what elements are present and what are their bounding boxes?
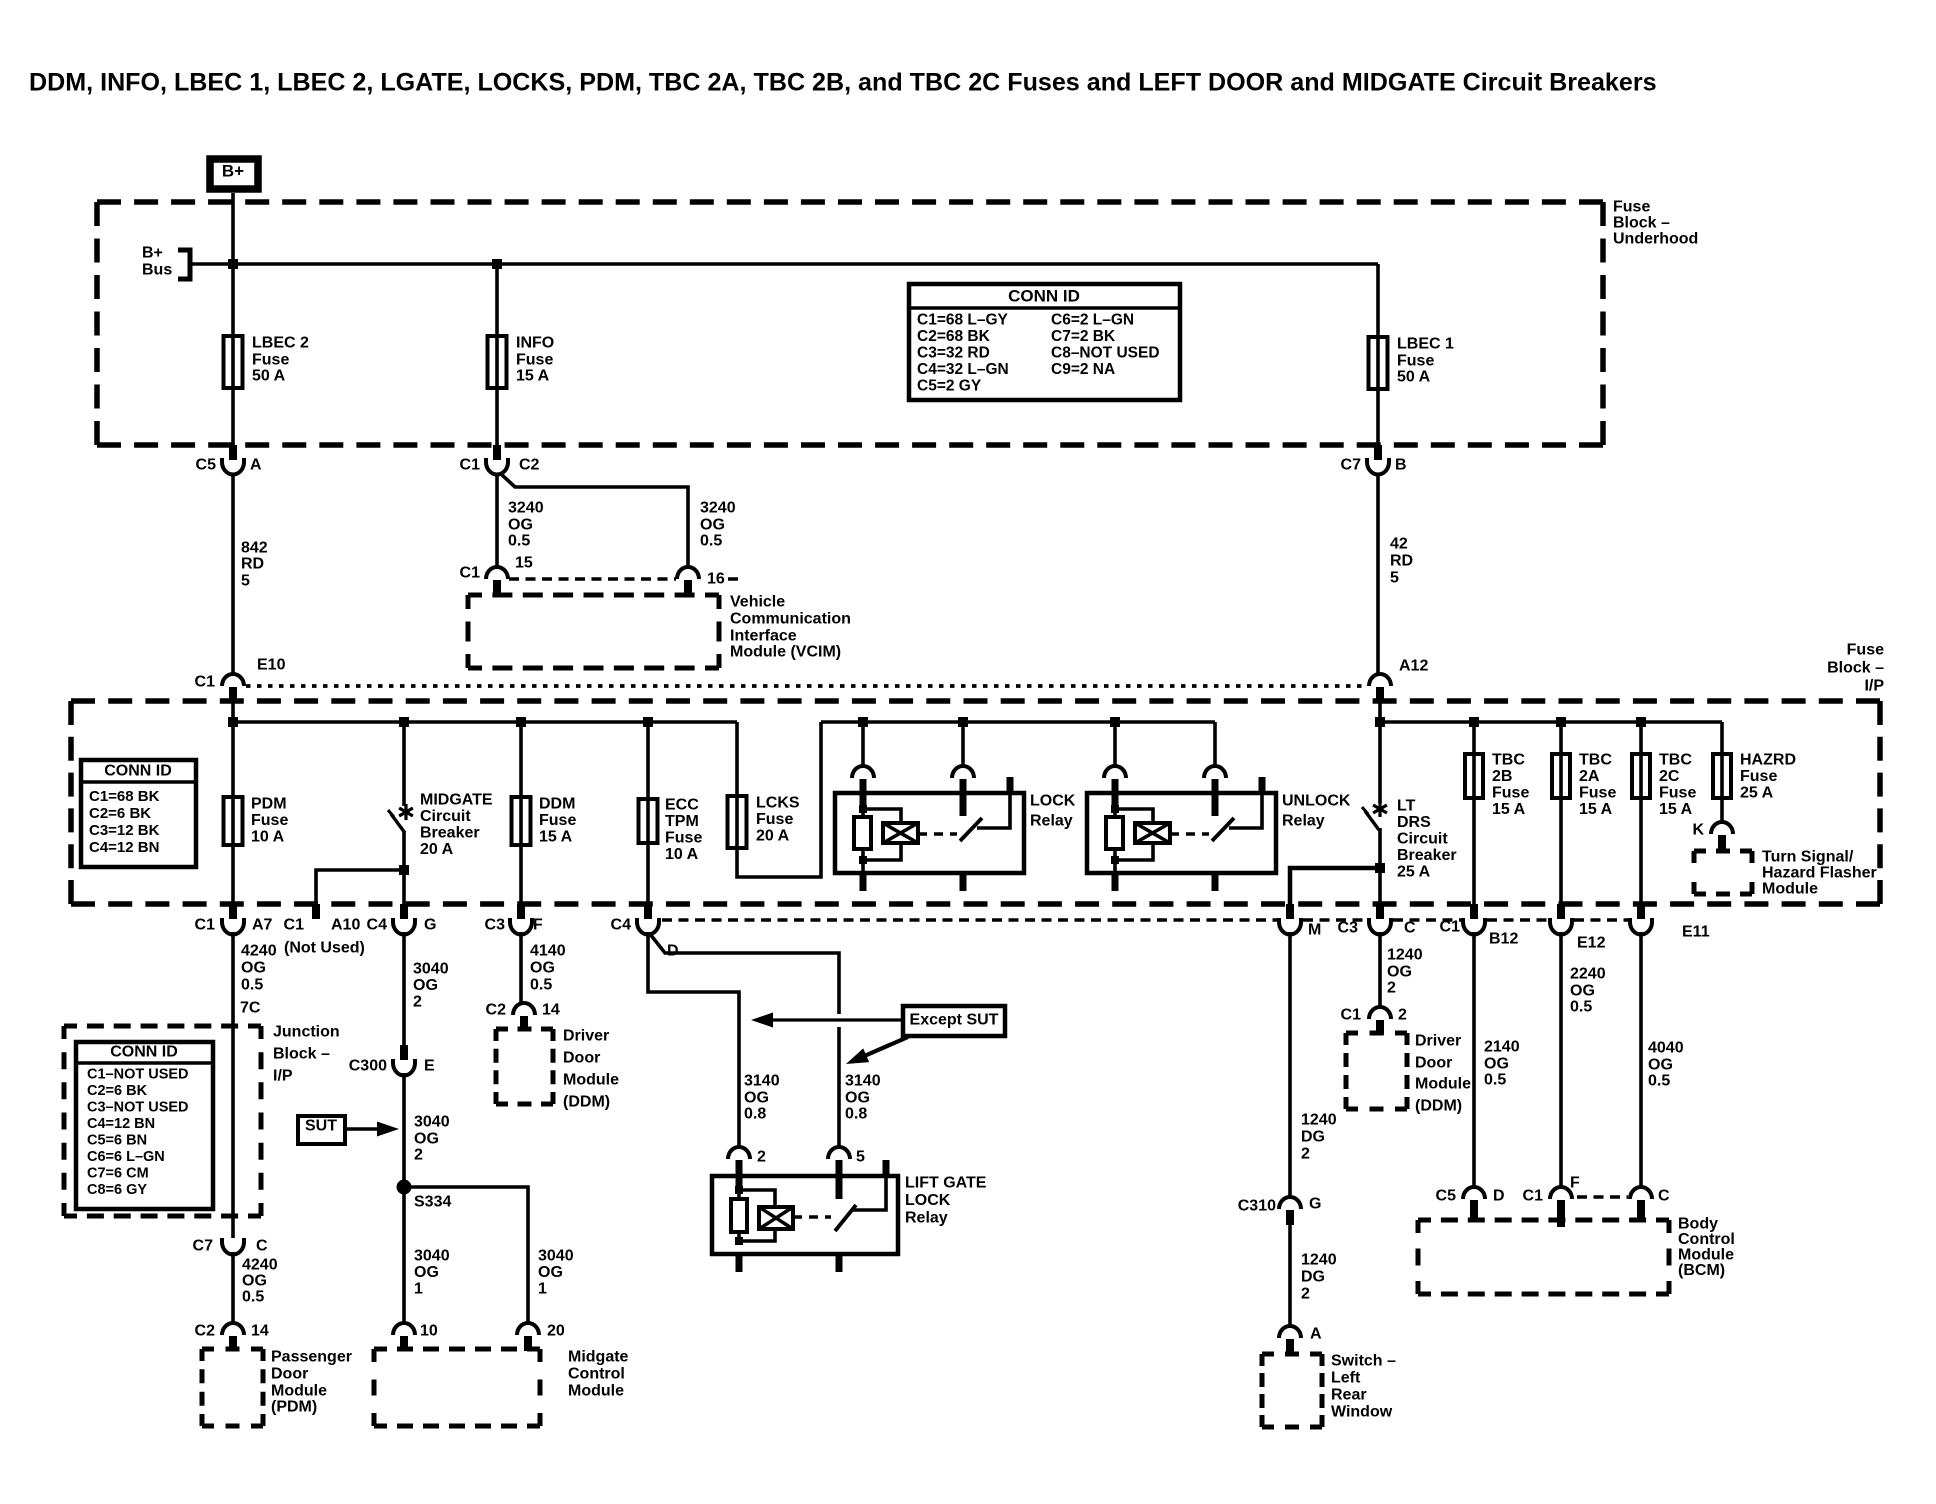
- connector C2 14 stub pdm: [229, 1336, 237, 1351]
- svg-text:G: G: [424, 917, 436, 934]
- fuse LCKS: [728, 796, 747, 848]
- LOCK relay coil winding: [883, 823, 918, 843]
- midgate breaker asterisk: [399, 804, 413, 820]
- svg-text:C2=6 BK: C2=6 BK: [89, 805, 151, 822]
- liftgate switch arm: [835, 1205, 856, 1231]
- svg-text:1: 1: [538, 1281, 547, 1298]
- svg-text:16: 16: [707, 571, 725, 588]
- svg-text:0.5: 0.5: [1570, 999, 1592, 1016]
- svg-text:842: 842: [241, 540, 268, 557]
- connector C dome: [1630, 1187, 1652, 1199]
- svg-text:Except SUT: Except SUT: [910, 1012, 999, 1029]
- UNLOCK coil output stub: [1112, 873, 1119, 891]
- svg-text:OG: OG: [530, 960, 555, 977]
- svg-text:Fuse: Fuse: [1579, 785, 1616, 802]
- pin 10 dome: [393, 1323, 415, 1335]
- svg-text:Fuse: Fuse: [1847, 642, 1884, 659]
- svg-text:2: 2: [1301, 1286, 1310, 1303]
- svg-text:OG: OG: [1484, 1056, 1509, 1073]
- wire C to C1: [1378, 932, 1382, 1007]
- UNLOCK coil terminal stub: [1112, 779, 1119, 810]
- wire E11 to C: [1639, 932, 1643, 1188]
- svg-text:Breaker: Breaker: [1397, 847, 1457, 864]
- connector C310 G stub: [1286, 1210, 1294, 1225]
- I/P bus wire left: [233, 720, 737, 724]
- junction dot ECC: [643, 717, 653, 727]
- connector C1 A7 stub: [229, 904, 237, 919]
- junction dot TBC2A: [1556, 717, 1566, 727]
- svg-text:(PDM): (PDM): [271, 1399, 317, 1416]
- junction dot MIDGATE: [399, 717, 409, 727]
- connector C300 E stub: [400, 1045, 408, 1060]
- pin 15 dome: [486, 567, 508, 579]
- svg-text:1: 1: [414, 1281, 423, 1298]
- connector C2 14 dome left: [513, 1003, 535, 1015]
- svg-text:C1: C1: [284, 917, 305, 934]
- svg-text:Communication: Communication: [730, 611, 851, 628]
- svg-text:OG: OG: [1387, 964, 1412, 981]
- UNLOCK coil top junction dot: [1111, 805, 1119, 813]
- wire bus to TBC2B fuse: [1472, 722, 1476, 904]
- I/P bus wire right: [1380, 720, 1722, 724]
- wire bus to UNLOCK switch: [1213, 722, 1217, 767]
- wire bus to TBC2C fuse: [1639, 722, 1643, 904]
- svg-text:4040: 4040: [1648, 1040, 1684, 1057]
- svg-text:Fuse: Fuse: [1492, 785, 1529, 802]
- liftgate coil output stub: [736, 1254, 743, 1272]
- svg-text:CONN ID: CONN ID: [110, 1044, 178, 1061]
- svg-text:C1: C1: [460, 457, 481, 474]
- svg-text:C4=12 BN: C4=12 BN: [89, 839, 159, 856]
- junction dot LOCK coil: [858, 717, 868, 727]
- CONN ID table underhood: [909, 284, 1180, 400]
- svg-text:C1: C1: [1440, 919, 1461, 936]
- svg-text:OG: OG: [413, 977, 438, 994]
- LOCK relay linkage dashes: [918, 832, 957, 836]
- svg-text:C4: C4: [367, 917, 388, 934]
- svg-text:C7=2 BK: C7=2 BK: [1051, 328, 1116, 345]
- svg-text:4240: 4240: [242, 1257, 278, 1274]
- svg-text:C2: C2: [195, 1323, 216, 1340]
- svg-text:Vehicle: Vehicle: [730, 594, 785, 611]
- svg-text:Circuit: Circuit: [420, 808, 471, 825]
- svg-text:4140: 4140: [530, 943, 566, 960]
- DDM module dashed box left: [496, 1029, 553, 1104]
- svg-text:(DDM): (DDM): [563, 1094, 610, 1111]
- LOCK coil bottom junction dot: [859, 856, 867, 864]
- wire bus corner to LBEC1 fuse: [1376, 264, 1380, 447]
- svg-text:PDM: PDM: [251, 796, 287, 813]
- svg-text:C8–NOT USED: C8–NOT USED: [1051, 344, 1160, 361]
- svg-text:0.8: 0.8: [744, 1106, 766, 1123]
- wire C7 to C2: [231, 1252, 235, 1323]
- LOCK coil output stub: [860, 873, 867, 891]
- svg-text:B+: B+: [142, 245, 163, 262]
- connector C7 B stub: [1374, 445, 1382, 460]
- svg-text:5: 5: [241, 573, 250, 590]
- svg-text:C1–NOT USED: C1–NOT USED: [87, 1067, 189, 1083]
- svg-text:E10: E10: [257, 657, 286, 674]
- pin 10 stub: [400, 1336, 408, 1351]
- junction dot bus/INFO: [492, 259, 502, 269]
- CONN ID table junction block: [76, 1042, 213, 1209]
- svg-text:OG: OG: [242, 1273, 267, 1290]
- wire bus to ECC fuse: [646, 722, 650, 904]
- svg-text:B: B: [1395, 457, 1407, 474]
- svg-text:C2=68 BK: C2=68 BK: [917, 328, 991, 345]
- svg-text:Door: Door: [1415, 1055, 1452, 1072]
- fuse TBC 2A: [1552, 754, 1570, 798]
- svg-text:Module: Module: [568, 1383, 624, 1400]
- svg-text:A: A: [250, 457, 262, 474]
- svg-text:SUT: SUT: [305, 1118, 337, 1135]
- fuse TBC 2C: [1632, 754, 1650, 798]
- UNLOCK switch terminal dome: [1204, 766, 1226, 778]
- svg-text:Control: Control: [1678, 1231, 1735, 1248]
- midgate breaker arm: [391, 814, 405, 833]
- SUT arrow: [345, 1127, 383, 1130]
- connector C stub: [1637, 1200, 1645, 1222]
- svg-text:Window: Window: [1331, 1404, 1393, 1421]
- svg-text:D: D: [1493, 1188, 1505, 1205]
- wire C1 to VCIM pin 15: [495, 474, 499, 566]
- svg-text:0.5: 0.5: [1484, 1072, 1506, 1089]
- svg-text:Junction: Junction: [273, 1024, 340, 1041]
- UNLOCK coil parallel wire: [1115, 809, 1153, 824]
- liftgate coil bottom junction dot: [735, 1237, 743, 1245]
- svg-text:Relay: Relay: [1282, 813, 1325, 830]
- svg-text:DG: DG: [1301, 1269, 1325, 1286]
- svg-text:Door: Door: [271, 1366, 308, 1383]
- svg-text:Block –: Block –: [273, 1046, 330, 1063]
- svg-text:OG: OG: [700, 517, 725, 534]
- connector M: [1279, 918, 1301, 935]
- connector A stub: [1286, 1339, 1294, 1354]
- svg-text:Fuse: Fuse: [665, 830, 702, 847]
- svg-text:2: 2: [414, 1147, 423, 1164]
- svg-text:C1: C1: [1523, 1188, 1544, 1205]
- UNLOCK coil bottom junction dot: [1111, 856, 1119, 864]
- svg-text:OG: OG: [1570, 983, 1595, 1000]
- fuse LBEC 1: [1369, 337, 1388, 389]
- svg-text:C3=12 BK: C3=12 BK: [89, 822, 160, 839]
- svg-text:C310: C310: [1238, 1198, 1276, 1215]
- svg-text:15: 15: [515, 555, 533, 572]
- svg-text:2140: 2140: [1484, 1039, 1520, 1056]
- wire B12 to C5: [1472, 932, 1476, 1188]
- svg-text:Breaker: Breaker: [420, 825, 480, 842]
- VCIM module dashed box: [468, 595, 719, 668]
- UNLOCK switch contact stub: [1212, 779, 1219, 816]
- connector A12 dome: [1369, 674, 1391, 686]
- liftgate switch common wire: [853, 1177, 886, 1210]
- connector C4 G: [393, 918, 415, 935]
- svg-text:CONN ID: CONN ID: [1008, 286, 1080, 305]
- svg-text:Fuse: Fuse: [251, 812, 288, 829]
- connector C5 A stub: [229, 445, 237, 460]
- svg-text:Relay: Relay: [1030, 813, 1073, 830]
- UNLOCK relay resistor: [1113, 806, 1117, 818]
- svg-text:C3=32 RD: C3=32 RD: [917, 344, 990, 361]
- LOCK coil output wire: [861, 860, 865, 873]
- svg-text:Circuit: Circuit: [1397, 831, 1448, 848]
- svg-text:C1: C1: [195, 917, 216, 934]
- pin 20 dome: [517, 1323, 539, 1335]
- svg-text:C300: C300: [349, 1058, 387, 1075]
- wire to liftgate pin5 lower: [837, 1027, 841, 1148]
- wire LT DRS breaker to C: [1378, 828, 1382, 904]
- svg-text:Turn Signal/: Turn Signal/: [1762, 849, 1854, 866]
- LOCK coil terminal stub: [860, 779, 867, 810]
- junction dot TBC2B: [1469, 717, 1479, 727]
- svg-text:C4=32 L–GN: C4=32 L–GN: [917, 361, 1009, 378]
- LIFT GATE LOCK relay box: [712, 1176, 898, 1254]
- junction dot DDM: [516, 717, 526, 727]
- svg-text:25 A: 25 A: [1740, 785, 1774, 802]
- svg-text:2: 2: [757, 1149, 766, 1166]
- svg-text:Fuse: Fuse: [1397, 353, 1434, 370]
- svg-text:OG: OG: [414, 1264, 439, 1281]
- wire bus to LT DRS breaker: [1378, 722, 1382, 803]
- svg-text:0.5: 0.5: [700, 533, 722, 550]
- svg-text:A: A: [1310, 1326, 1322, 1343]
- connector C5 A: [222, 458, 244, 475]
- svg-text:50 A: 50 A: [1397, 369, 1431, 386]
- svg-text:2: 2: [1398, 1007, 1407, 1024]
- connector C1 2 stub: [1376, 1020, 1384, 1035]
- LOCK switch output stub: [960, 873, 967, 891]
- svg-text:LT: LT: [1397, 798, 1416, 815]
- LT DRS breaker arm: [1365, 811, 1379, 830]
- wire bus to PDM fuse: [231, 722, 235, 904]
- svg-text:TBC: TBC: [1579, 752, 1612, 769]
- svg-text:5: 5: [856, 1149, 865, 1166]
- svg-text:C1=68 BK: C1=68 BK: [89, 788, 160, 805]
- connector A10 stub: [312, 904, 320, 919]
- svg-text:C2: C2: [519, 457, 540, 474]
- svg-text:14: 14: [251, 1323, 269, 1340]
- fuse INFO: [488, 336, 507, 388]
- svg-text:Module (VCIM): Module (VCIM): [730, 644, 841, 661]
- UNLOCK switch output stub: [1212, 873, 1219, 891]
- connector C1 B12 stub: [1470, 904, 1478, 919]
- wire branch to M: [1290, 868, 1380, 904]
- Except SUT arrow left: [766, 1018, 903, 1021]
- svg-text:DDM: DDM: [539, 796, 575, 813]
- wire E to S334: [402, 1073, 406, 1187]
- svg-text:(DDM): (DDM): [1415, 1098, 1462, 1115]
- svg-text:I/P: I/P: [273, 1068, 293, 1085]
- svg-text:Module: Module: [1415, 1076, 1471, 1093]
- wire midgate branch to A10: [316, 870, 404, 904]
- svg-text:15 A: 15 A: [539, 829, 573, 846]
- svg-text:LBEC 2: LBEC 2: [252, 335, 309, 352]
- svg-text:TBC: TBC: [1492, 752, 1525, 769]
- svg-text:3040: 3040: [414, 1248, 450, 1265]
- svg-text:14: 14: [542, 1002, 560, 1019]
- LOCK coil parallel wire: [863, 809, 901, 824]
- svg-text:20 A: 20 A: [420, 841, 454, 858]
- liftgate coil top junction dot: [735, 1186, 743, 1194]
- LOCK switch contact stub: [960, 779, 967, 816]
- connector K dome: [1711, 822, 1733, 834]
- junction dot PDM: [228, 717, 238, 727]
- svg-text:0.5: 0.5: [530, 977, 552, 994]
- pin 16 stub: [684, 580, 692, 596]
- fuse HAZRD: [1713, 754, 1731, 798]
- LOCK relay box: [835, 793, 1024, 873]
- junction dot midgate branch: [399, 865, 409, 875]
- svg-text:2B: 2B: [1492, 768, 1512, 785]
- connector C3 F: [510, 918, 532, 935]
- svg-text:OG: OG: [744, 1090, 769, 1107]
- LOCK switch terminal dome: [952, 766, 974, 778]
- svg-text:0.5: 0.5: [508, 533, 530, 550]
- connector C1 C2 stub: [493, 445, 501, 460]
- LOCK switch common wire: [977, 794, 1010, 828]
- svg-text:Fuse: Fuse: [539, 812, 576, 829]
- svg-text:TBC: TBC: [1659, 752, 1692, 769]
- connector E12: [1550, 918, 1572, 935]
- LOCK switch arm: [960, 818, 982, 841]
- svg-text:2: 2: [413, 994, 422, 1011]
- svg-text:C1: C1: [460, 565, 481, 582]
- LT DRS breaker asterisk: [1373, 801, 1387, 817]
- svg-text:E11: E11: [1682, 924, 1710, 941]
- connector A12 stub: [1376, 687, 1384, 702]
- svg-text:C: C: [1404, 920, 1416, 937]
- svg-text:1240: 1240: [1301, 1252, 1337, 1269]
- UNLOCK relay linkage dashes: [1170, 832, 1209, 836]
- DDM module dashed box right: [1346, 1033, 1407, 1109]
- wire bus to E10: [231, 702, 235, 722]
- svg-text:OG: OG: [1648, 1057, 1673, 1074]
- VCIM pin dotted line: [509, 577, 676, 581]
- svg-text:Relay: Relay: [905, 1210, 948, 1227]
- liftgate switch output stub: [836, 1254, 843, 1272]
- svg-text:Fuse: Fuse: [1613, 199, 1650, 216]
- Except SUT arrow diagonal: [862, 1037, 908, 1057]
- svg-text:15 A: 15 A: [1492, 801, 1526, 818]
- svg-text:2: 2: [1301, 1146, 1310, 1163]
- svg-text:C1: C1: [195, 674, 216, 691]
- svg-text:C8=6 GY: C8=6 GY: [87, 1182, 147, 1198]
- connector C3 F stub: [517, 904, 525, 919]
- wire B+ to bus: [231, 193, 235, 264]
- svg-text:Fuse: Fuse: [252, 352, 289, 369]
- svg-text:15 A: 15 A: [516, 368, 550, 385]
- svg-text:C1: C1: [1341, 1007, 1362, 1024]
- svg-text:C4: C4: [611, 917, 632, 934]
- svg-text:OG: OG: [414, 1131, 439, 1148]
- connector C2 14 stub left: [520, 1016, 528, 1031]
- wire A7 to C7: [231, 932, 235, 1238]
- svg-text:C5: C5: [1436, 1188, 1457, 1205]
- connector C4 D stub: [644, 904, 652, 919]
- svg-text:C2=6 BK: C2=6 BK: [87, 1083, 148, 1099]
- wire C310 to A: [1288, 1225, 1292, 1326]
- svg-text:LBEC 1: LBEC 1: [1397, 336, 1454, 353]
- connector E10 stub: [229, 687, 237, 702]
- svg-text:F: F: [1570, 1175, 1580, 1192]
- svg-text:0.5: 0.5: [242, 1289, 264, 1306]
- svg-text:Block –: Block –: [1827, 660, 1884, 677]
- wire bus to INFO fuse: [495, 264, 499, 447]
- connector C1 C2: [486, 458, 508, 475]
- UNLOCK coil output wire: [1113, 860, 1117, 873]
- wire E12 to C1F: [1559, 932, 1563, 1188]
- fuse TBC 2B: [1465, 754, 1483, 798]
- fuse ECC TPM: [639, 799, 658, 843]
- bottom dotted line: [662, 918, 1277, 922]
- LOCK relay top-right stub: [1007, 777, 1014, 794]
- svg-text:OG: OG: [538, 1264, 563, 1281]
- svg-text:3040: 3040: [538, 1248, 574, 1265]
- svg-text:C4=12 BN: C4=12 BN: [87, 1116, 155, 1132]
- connector C1 A7: [222, 918, 244, 935]
- svg-text:3240: 3240: [508, 500, 544, 517]
- wire S334 to pin10: [402, 1187, 406, 1324]
- wire C2 to VCIM pin 16: [501, 474, 688, 566]
- wire 42 RD: [1376, 474, 1380, 674]
- wire LCKS detour: [737, 722, 821, 877]
- svg-text:LCKS: LCKS: [756, 795, 800, 812]
- svg-text:B+: B+: [222, 161, 244, 180]
- junction dot TBC2C: [1636, 717, 1646, 727]
- svg-text:K: K: [1692, 822, 1704, 839]
- fuse LBEC 2: [224, 336, 243, 388]
- wire bus to TBC2A fuse: [1559, 722, 1563, 904]
- svg-text:DDM, INFO, LBEC 1, LBEC 2, LGA: DDM, INFO, LBEC 1, LBEC 2, LGATE, LOCKS,…: [29, 68, 1657, 96]
- liftgate pin 2 dome: [728, 1147, 750, 1159]
- svg-text:LOCK: LOCK: [905, 1192, 951, 1209]
- fuse block I/P dashed box: [71, 701, 1880, 904]
- svg-text:C7=6 CM: C7=6 CM: [87, 1166, 149, 1182]
- UNLOCK relay coil winding: [1135, 823, 1170, 843]
- svg-text:C2: C2: [486, 1002, 507, 1019]
- liftgate switch contact stub: [836, 1160, 843, 1199]
- liftgate pin 5 dome: [828, 1147, 850, 1159]
- svg-text:C5=2 GY: C5=2 GY: [917, 377, 982, 394]
- svg-text:LOCK: LOCK: [1030, 793, 1076, 810]
- svg-text:Module: Module: [1678, 1247, 1734, 1264]
- connector C4 G stub: [400, 904, 408, 919]
- svg-text:LIFT GATE: LIFT GATE: [905, 1175, 987, 1192]
- svg-text:50 A: 50 A: [252, 368, 286, 385]
- svg-text:OG: OG: [845, 1090, 870, 1107]
- svg-text:C7: C7: [193, 1238, 214, 1255]
- svg-text:Interface: Interface: [730, 628, 797, 645]
- svg-text:Fuse: Fuse: [756, 811, 793, 828]
- connector C1 F dome: [1550, 1187, 1572, 1199]
- connector C7 C: [222, 1238, 244, 1255]
- svg-text:C3: C3: [1338, 920, 1359, 937]
- turn signal module dashed box: [1694, 851, 1752, 894]
- svg-text:C3: C3: [485, 917, 506, 934]
- LOCK coil terminal dome: [852, 766, 874, 778]
- svg-text:F: F: [533, 917, 543, 934]
- junction dot bus/LBEC2: [228, 259, 238, 269]
- connector C1 F stub: [1557, 1200, 1565, 1227]
- wire bus to LBEC2 fuse: [231, 264, 235, 447]
- svg-text:42: 42: [1390, 536, 1408, 553]
- svg-text:Module: Module: [271, 1383, 327, 1400]
- svg-text:C5=6 BN: C5=6 BN: [87, 1133, 147, 1149]
- svg-text:C: C: [256, 1238, 268, 1255]
- B+ bus wire: [190, 262, 1378, 266]
- svg-text:Underhood: Underhood: [1613, 231, 1698, 248]
- svg-text:25 A: 25 A: [1397, 864, 1431, 881]
